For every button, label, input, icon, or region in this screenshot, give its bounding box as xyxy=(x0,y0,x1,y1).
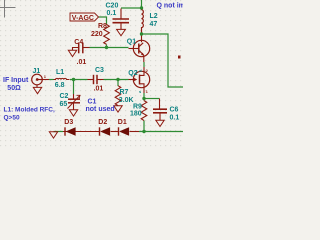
ground under J1 xyxy=(33,87,41,93)
wire collector to output xyxy=(142,34,184,87)
junction at Q1 collector node xyxy=(140,32,143,35)
junction at L1 / C2 node xyxy=(72,78,75,81)
variable capacitor C2 xyxy=(68,94,81,110)
wire L1 to C3 xyxy=(70,79,88,81)
svg-text:Q>50: Q>50 xyxy=(4,115,20,122)
wire V+ rail top xyxy=(141,0,143,8)
capacitor C4 xyxy=(73,43,90,54)
svg-text:R8: R8 xyxy=(98,23,107,30)
junction at L2 top / C20 node xyxy=(140,6,143,9)
svg-text:180: 180 xyxy=(130,111,142,118)
svg-text:J1: J1 xyxy=(33,68,41,75)
ground under C4 xyxy=(68,50,76,56)
svg-text:Q not imp: Q not imp xyxy=(157,2,184,9)
capacitor C6 xyxy=(153,99,167,121)
svg-text:Q2: Q2 xyxy=(128,70,137,77)
wire R9 to bottom rail xyxy=(143,121,145,132)
capacitor C20 xyxy=(113,9,130,30)
svg-text:C2: C2 xyxy=(60,93,69,100)
global label V-AGC xyxy=(70,13,99,22)
svg-text:D1: D1 xyxy=(118,119,127,126)
svg-text:Q1: Q1 xyxy=(127,39,136,46)
junction at R8 / Q1 base node xyxy=(105,46,108,49)
resistor R8 xyxy=(104,25,110,45)
svg-text:C3: C3 xyxy=(95,67,104,74)
wire C20 to L2 top xyxy=(121,7,142,9)
junction at bottom rail / R9 node xyxy=(142,130,145,133)
svg-text:C1: C1 xyxy=(88,98,97,105)
wire bottom rail xyxy=(139,131,183,133)
diode D3 xyxy=(63,127,100,136)
diode D1 xyxy=(119,127,140,136)
wire R8 to base node xyxy=(106,45,108,48)
svg-text:C20: C20 xyxy=(106,2,119,9)
svg-text:0.1: 0.1 xyxy=(170,115,180,122)
svg-text:L2: L2 xyxy=(150,13,158,20)
junction at C3 / R7 node xyxy=(116,78,119,81)
svg-text:6.8: 6.8 xyxy=(55,82,65,89)
wire ground to D3 xyxy=(54,131,64,133)
wire C3 to Q2 gate xyxy=(104,79,129,81)
stray red mark right edge xyxy=(178,56,181,59)
svg-text:0.1: 0.1 xyxy=(107,10,117,17)
svg-text:C4: C4 xyxy=(74,39,83,46)
svg-text:IF Input: IF Input xyxy=(3,77,29,84)
ground under C20 xyxy=(117,29,126,35)
svg-text:V-AGC: V-AGC xyxy=(72,15,94,22)
resistor R7 xyxy=(115,86,121,106)
svg-text:L1: Molded RFC,: L1: Molded RFC, xyxy=(4,107,55,114)
svg-text:50Ω: 50Ω xyxy=(7,85,21,92)
svg-text:220: 220 xyxy=(91,31,103,38)
svg-text:C6: C6 xyxy=(170,107,179,114)
wire node to C2 xyxy=(73,80,75,95)
transistor Q1 xyxy=(129,35,150,63)
resistor R9 xyxy=(141,101,147,121)
capacitor C3 xyxy=(88,75,104,84)
svg-text:R7: R7 xyxy=(120,89,129,96)
diode D2 xyxy=(100,127,119,136)
wire J1 to L1 xyxy=(49,79,54,81)
wire Q1 base xyxy=(90,47,129,49)
svg-text:not used: not used xyxy=(86,106,115,113)
svg-text:D3: D3 xyxy=(64,119,73,126)
inductor L1 xyxy=(54,78,70,79)
connector J1 xyxy=(32,74,49,87)
svg-text:.01: .01 xyxy=(94,86,104,93)
wire Q2 source to R9 node xyxy=(143,93,145,99)
svg-text:3.0K: 3.0K xyxy=(119,97,134,104)
wire node to C6 xyxy=(144,98,160,100)
ground under R7 xyxy=(114,106,122,112)
transistor Q2 (JFET) xyxy=(129,67,150,93)
svg-text:D2: D2 xyxy=(98,119,107,126)
crosshair cursor xyxy=(0,0,16,18)
svg-text:.01: .01 xyxy=(77,59,87,66)
inductor L2 xyxy=(142,8,144,34)
svg-text:47: 47 xyxy=(150,21,158,28)
svg-text:L1: L1 xyxy=(56,69,64,76)
svg-text:65: 65 xyxy=(60,101,68,108)
wire V-AGC to R8 xyxy=(99,17,107,25)
junction at Q2 source / R9 node xyxy=(142,97,145,100)
svg-text:R9: R9 xyxy=(133,104,142,111)
ground under C2 xyxy=(69,110,77,116)
ground left of D3 xyxy=(49,132,57,138)
wire node to R7 xyxy=(117,80,119,87)
ground under C6 xyxy=(156,120,164,126)
wire Q1 emitter to Q2 drain xyxy=(143,62,145,67)
